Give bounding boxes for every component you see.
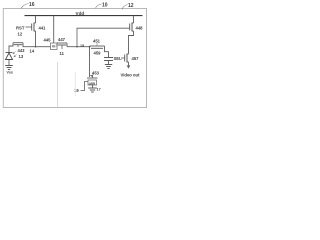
svg-text:19: 19 (74, 88, 79, 93)
transistor M5 channel (127, 54, 129, 62)
leader arrow to top border for 16 (21, 4, 29, 9)
transistor M5 source wire down (128, 62, 130, 66)
svg-text:457: 457 (132, 56, 140, 61)
bias transistor T4 top lead (92, 75, 94, 78)
capacitor C1 top plate (104, 57, 113, 59)
svg-text:459: 459 (94, 51, 102, 56)
bias transistor T4 channel (87, 77, 98, 79)
transistor M1 gate lead (26, 26, 32, 28)
photodiode PD triangle (6, 53, 13, 60)
Vdd rail (25, 15, 143, 17)
svg-text:12: 12 (18, 32, 23, 37)
output arrowhead (127, 65, 131, 68)
transistor M4 source jog to M5 (129, 31, 134, 54)
node dot at feedback junction (76, 46, 78, 48)
label 453 leader arrowhead (90, 74, 94, 77)
svg-text:10: 10 (102, 3, 108, 9)
sample transistor T3 right lead to capacitor (105, 46, 109, 58)
bias transistor T4 source lead (92, 85, 94, 88)
ground G3 (88, 87, 97, 89)
column line down from output wire (89, 47, 91, 77)
svg-text:445: 445 (44, 38, 52, 43)
wire FD node to SF box (36, 46, 51, 48)
svg-text:448: 448 (136, 26, 144, 31)
svg-text:Vdd: Vdd (76, 11, 85, 16)
select transistor T2 gate lead (61, 45, 63, 49)
transistor M5 gate lead (121, 57, 125, 59)
svg-text:SEL: SEL (114, 56, 123, 61)
ground G2 (105, 64, 112, 66)
node dot FD (35, 46, 37, 48)
svg-text:11: 11 (60, 51, 65, 56)
svg-text:451: 451 (93, 39, 101, 44)
svg-text:443: 443 (18, 48, 26, 53)
leader arrow to top border for 10 (96, 4, 102, 8)
svg-text:RST: RST (16, 26, 25, 31)
faint column guide line (57, 62, 59, 107)
svg-text:441: 441 (39, 26, 47, 31)
transistor M4 gate bar (129, 24, 131, 31)
bias transistor T4 gate box (88, 80, 97, 85)
transfer gate T1 gate bar (14, 44, 23, 46)
SF box inner mark (52, 45, 55, 47)
transistor M4 channel (132, 23, 134, 31)
leader arrow for 12 (122, 5, 128, 10)
node dot column (89, 46, 91, 48)
background (0, 0, 150, 120)
output wire to right (67, 46, 90, 48)
faint column guide line 2 (74, 72, 76, 96)
T3 label leader tick (96, 43, 98, 46)
transfer gate T1 left lead and wire to photodiode (9, 43, 13, 53)
svg-text:14: 14 (30, 49, 35, 54)
capacitor C1 bottom plate (104, 60, 113, 62)
transistor M1 gate bar (31, 24, 33, 31)
source follower SF box (51, 43, 58, 50)
transfer gate T1 channel (13, 42, 23, 44)
svg-text:15: 15 (80, 44, 84, 48)
transfer gate T1 gate lead (17, 45, 19, 47)
select transistor T2 right lead (66, 43, 68, 47)
svg-text:Video out: Video out (121, 73, 141, 78)
capacitor C1 lower lead (108, 61, 110, 65)
photodiode anode wire (8, 60, 10, 66)
photodiode light arrow 1 (13, 51, 16, 54)
svg-text:13: 13 (19, 54, 24, 59)
transistor M1 channel (34, 23, 36, 31)
bias transistor T4 gate wire to bias terminal (81, 82, 89, 91)
outer box border (3, 9, 146, 108)
svg-text:17: 17 (97, 88, 101, 92)
svg-text:16: 16 (29, 2, 35, 8)
sample transistor T3 gate bar (91, 47, 103, 49)
select transistor T2 gate bar (58, 44, 66, 46)
svg-text:447: 447 (58, 37, 66, 42)
svg-text:12: 12 (128, 3, 134, 9)
transistor M1 source wire down to FD node (35, 31, 37, 47)
feedback wire up to M4 gate (77, 28, 130, 47)
svg-text:Vss: Vss (7, 71, 13, 75)
photodiode PD cathode bar (6, 52, 13, 54)
transistor M1 (reset) drain wire (35, 16, 37, 23)
photodiode light arrow 2 (14, 54, 17, 57)
transistor M4 drain wire (133, 16, 135, 23)
select transistor T2 left lead (56, 43, 58, 47)
transfer gate T1 right lead (23, 43, 36, 47)
transistor M5 gate bar (124, 55, 126, 62)
select transistor T2 channel (57, 42, 67, 44)
ground G1 (5, 65, 13, 67)
SF drain wire from rail (53, 16, 55, 43)
sample transistor T3 channel (90, 45, 105, 47)
